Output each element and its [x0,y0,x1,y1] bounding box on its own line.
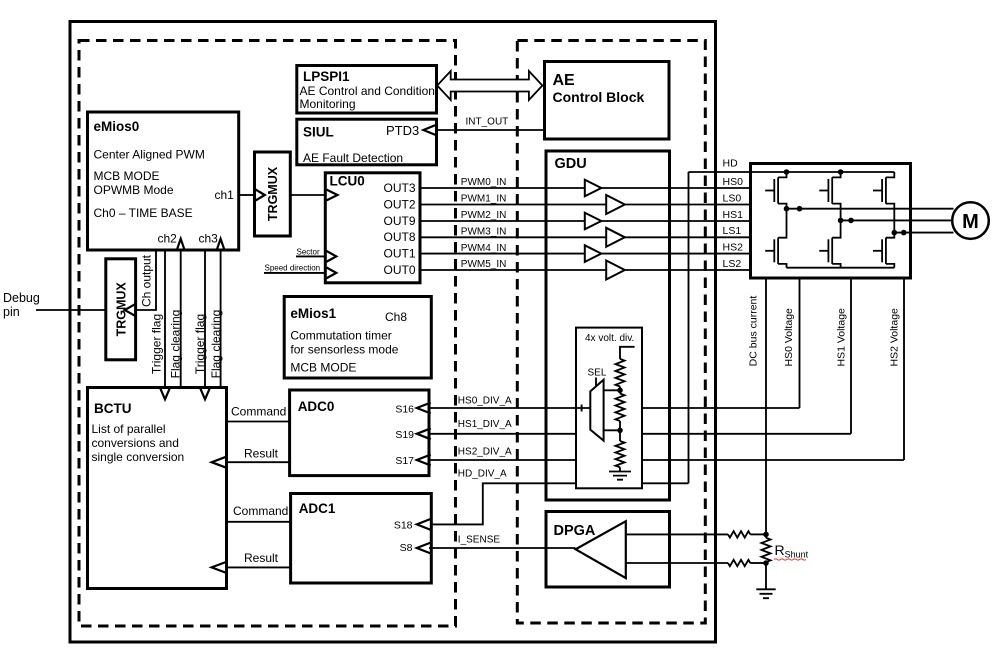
wire R2-R3 [619,421,621,441]
arrowhead Result2 into BCTU [212,562,227,573]
ground divider [609,472,631,480]
svg-text:conversions and: conversions and [92,436,179,450]
wire PWM5_IN row OUT to bridge [420,269,751,271]
wire HS0_DIV_A row to mux output [429,407,590,409]
arrowhead into TRGMUX2 [125,304,136,316]
svg-text:PWM3_IN: PWM3_IN [461,227,507,238]
wire phase A [787,208,954,210]
wire Command ADC0 [227,421,290,423]
wire bottom source bus [787,267,895,269]
arrowhead ADC1 pin at y=524.4 [417,519,431,530]
outer MCU box [70,22,716,643]
svg-text:HS2 Voltage: HS2 Voltage [889,308,901,367]
svg-text:MCB MODE: MCB MODE [94,169,160,183]
svg-text:eMios1: eMios1 [290,306,336,321]
resistor divider R2 [616,394,625,422]
wire trigger flag 1 [164,250,166,388]
wire PWM4_IN row OUT to bridge [420,253,751,255]
svg-text:SIUL: SIUL [303,125,334,140]
svg-text:Center Aligned PWM: Center Aligned PWM [94,148,205,162]
svg-text:OUT8: OUT8 [383,230,415,244]
wire flag clearing 1 [180,250,182,388]
arrowhead Sector [326,251,336,262]
svg-text:PWM5_IN: PWM5_IN [461,259,507,270]
resistor divider R3 [616,441,625,467]
svg-text:OUT9: OUT9 [383,214,415,228]
svg-text:for sensorless mode: for sensorless mode [290,343,398,357]
svg-text:HS0 Voltage: HS0 Voltage [783,308,795,367]
svg-text:HS1 Voltage: HS1 Voltage [836,308,848,367]
arrowhead into SIUL PTD3 [423,125,437,136]
wire phase B [841,219,953,221]
node shunt bottom [763,560,769,566]
svg-text:Ch output: Ch output [140,254,154,307]
svg-text:I_SENSE: I_SENSE [458,535,501,546]
svg-text:RShunt: RShunt [775,542,809,560]
block SIUL [297,119,437,165]
arrowhead Result1 into BCTU [212,457,227,468]
wire HS1 voltage riser [850,220,852,433]
svg-text:pin: pin [3,305,20,319]
arrowhead into TRGMUX1 [256,190,265,201]
block BCTU [88,388,227,589]
block LPSPI1 [297,66,437,114]
wire shunt to ground [765,563,767,589]
svg-text:ch3: ch3 [199,232,219,246]
node top bus leg1 [784,169,790,175]
svg-text:ch2: ch2 [158,232,178,246]
arrowhead ADC1 pin at y=548 [417,543,431,554]
wire PWM2_IN row OUT to bridge [420,220,751,222]
wire trigger flag 2 [204,250,206,388]
svg-text:GDU: GDU [555,156,587,172]
svg-text:eMios0: eMios0 [94,119,140,134]
wire DPGA lower output [626,562,728,564]
svg-text:AE Control and Condition: AE Control and Condition [300,84,435,98]
transistor Q6 low-side [873,233,894,268]
svg-text:HS2: HS2 [723,241,744,253]
transistor Q5 high-side [873,172,894,233]
svg-text:Flag clearing: Flag clearing [168,310,182,379]
wire DC bus current riser [765,278,767,538]
svg-text:Command: Command [233,504,288,518]
node phase A leg [784,206,790,212]
dashed box right (analog/GDU domain) [517,41,705,624]
svg-text:DC bus current: DC bus current [748,296,760,367]
arrowhead ADC0 pin at y=408 [417,403,431,414]
svg-text:List of parallel: List of parallel [92,422,166,436]
svg-text:SEL: SEL [588,368,607,379]
svg-text:ADC0: ADC0 [298,399,335,414]
wire ch1 to TRGMUX [239,194,255,196]
svg-text:S19: S19 [395,429,414,441]
svg-text:LS0: LS0 [723,192,742,204]
block TRGMUX (debug pin) [106,259,136,360]
svg-text:AE Fault Detection: AE Fault Detection [303,151,403,165]
svg-text:OPWMB Mode: OPWMB Mode [94,183,174,197]
wire PWM1_IN row OUT to bridge [420,204,751,206]
arrowhead trigger flag 1 down [160,388,170,400]
svg-text:single conversion: single conversion [92,450,185,464]
svg-text:PWM4_IN: PWM4_IN [461,243,507,254]
spellcheck underline [774,559,806,560]
svg-text:ADC1: ADC1 [299,501,336,516]
block 3-phase bridge [751,164,911,279]
wire HS2_DIV_A row [429,459,904,461]
svg-text:PWM2_IN: PWM2_IN [461,210,507,221]
svg-text:LPSPI1: LPSPI1 [303,69,350,84]
transistor Q2 low-side [765,209,786,268]
svg-text:S18: S18 [394,520,413,532]
svg-text:Commutation timer: Commutation timer [290,329,391,343]
transistor Q1 high-side [765,172,786,209]
svg-text:HS1: HS1 [723,209,744,221]
motor M [952,202,989,239]
node shunt top [763,532,769,538]
wire PWM3_IN row OUT to bridge [420,236,751,238]
resistor divider R1 [616,359,625,387]
svg-text:Debug: Debug [3,291,40,305]
node phase C tap [901,230,907,236]
svg-text:LS1: LS1 [723,225,742,237]
wire HS0 voltage riser [799,209,801,408]
wire divider top lead [620,347,635,359]
buffer amplifier GDU channel 3 [606,228,625,247]
wire I_SENSE [429,547,576,549]
arrowhead trigger flag 2 down [200,388,210,400]
wire Sector input [296,255,325,257]
svg-text:Trigger flag: Trigger flag [193,314,207,374]
buffer amplifier GDU channel 4 [585,245,602,262]
buffer amplifier GDU channel 0 [585,180,602,197]
arrowhead ADC0 pin at y=433.8 [417,428,431,439]
node phase C leg [892,230,898,236]
svg-text:S8: S8 [400,542,413,554]
wire PWM0_IN row OUT to bridge [420,187,751,189]
wire HS2 voltage riser [903,233,905,460]
node divider tap1 [617,388,623,394]
wire Result ADC0 [227,461,290,463]
svg-text:PWM0_IN: PWM0_IN [461,177,507,188]
wire lower sense to node [750,562,766,564]
svg-text:AE: AE [553,72,576,89]
node phase B tap [848,218,854,224]
buffer amplifier GDU channel 1 [606,195,625,214]
wire HS0_DIV_A right segment [642,407,800,409]
dashed box left (timer/ADC domain) [79,41,456,627]
resistor sense lower [728,560,750,566]
wire DPGA upper output [626,533,728,535]
svg-text:INT_OUT: INT_OUT [466,117,509,128]
svg-text:Monitoring: Monitoring [300,97,356,111]
svg-text:Flag clearing: Flag clearing [209,310,223,379]
arrowhead Speed direction [326,267,336,278]
svg-text:Speed direction: Speed direction [265,263,321,272]
svg-text:LCU0: LCU0 [330,174,365,189]
svg-text:S16: S16 [395,403,414,415]
wire SEL lead [595,378,597,387]
wire INT_OUT [437,129,545,131]
node phase B leg [838,218,844,224]
node phase A tap [797,206,803,212]
svg-text:4x volt. div.: 4x volt. div. [585,333,634,344]
buffer amplifier GDU channel 2 [585,213,602,230]
svg-text:BCTU: BCTU [94,401,132,416]
block LCU0 [325,173,420,283]
svg-text:ch1: ch1 [215,188,235,202]
wire TRGMUX to LCU0 [290,194,325,196]
svg-text:DPGA: DPGA [554,523,596,539]
wire Command ADC1 [227,521,291,523]
wire Speed direction input [264,272,325,274]
op-amp DPGA triangle [576,521,626,578]
svg-text:Command: Command [231,405,286,419]
svg-text:Ch8: Ch8 [385,310,407,324]
wire R1-R2 [619,387,621,394]
svg-text:OUT0: OUT0 [383,263,415,277]
buffer amplifier GDU channel 5 [606,261,625,280]
node top bus leg2 [838,169,844,175]
block eMios0 [88,112,239,250]
ground shunt [756,589,775,598]
block ADC0 [290,390,429,476]
block AE Control Block [545,62,670,140]
arrowhead ADC0 pin at y=460 [417,455,431,466]
svg-text:Control Block: Control Block [553,89,645,105]
wire mux input tap2 [604,429,620,431]
wire mux output tick [581,405,583,412]
wire mux input tap1 [604,389,620,391]
svg-text:Result: Result [244,447,279,461]
arrowhead into LCU0 ch1 [326,190,337,201]
multiplexer SEL mux [590,380,603,441]
node divider tap2 [617,428,623,434]
svg-text:HS2_DIV_A: HS2_DIV_A [458,447,512,458]
wire flag clearing 2 [220,250,222,388]
wire Result ADC1 [227,566,291,568]
svg-text:MCB MODE: MCB MODE [290,361,356,375]
svg-text:Trigger flag: Trigger flag [150,314,164,374]
wire R3 to ground [619,467,621,471]
svg-text:LS2: LS2 [723,258,742,270]
block TRGMUX (ch1 path) [255,152,291,236]
svg-text:HD_DIV_A: HD_DIV_A [458,469,507,480]
wire HD_DIV_A row (from ADC1 S18) [429,483,689,524]
block GDU [546,151,670,500]
arrowhead flag clearing 1 up [177,239,185,250]
block DPGA [546,512,670,588]
arrowhead flag clearing 2 up [217,239,225,250]
svg-text:OUT2: OUT2 [383,197,415,211]
wire HD riser [688,172,690,483]
svg-text:TRGMUX: TRGMUX [266,166,280,221]
svg-text:Result: Result [244,551,279,565]
svg-text:HS0: HS0 [723,176,744,188]
transistor Q4 low-side [819,220,840,267]
svg-text:HS0_DIV_A: HS0_DIV_A [458,396,512,407]
bidirectional arrow LPSPI1-AE [437,71,542,100]
svg-text:S17: S17 [395,455,414,467]
transistor Q3 high-side [819,172,840,220]
svg-text:OUT3: OUT3 [383,181,415,195]
wire debug pin line [36,309,106,311]
resistor R_Shunt [762,538,771,562]
block 4x voltage divider [576,328,642,489]
wire phase C [894,232,953,234]
svg-text:Sector: Sector [297,248,320,257]
svg-text:PTD3: PTD3 [386,123,419,138]
svg-text:Ch0 – TIME BASE: Ch0 – TIME BASE [94,206,193,220]
svg-text:HD: HD [723,158,739,170]
resistor sense upper [728,531,750,537]
block eMios1 [284,297,431,379]
svg-text:M: M [962,211,979,233]
wire top bus [751,171,895,173]
svg-text:PWM1_IN: PWM1_IN [461,194,507,205]
block ADC1 [291,494,432,584]
wire ch output to TRGMUX2 [136,250,156,310]
svg-text:HS1_DIV_A: HS1_DIV_A [458,419,512,430]
wire HD top line to bridge bus [689,171,895,173]
svg-text:OUT1: OUT1 [383,246,415,260]
wire HS1_DIV_A row [429,433,851,435]
wire upper sense to node [750,533,766,535]
